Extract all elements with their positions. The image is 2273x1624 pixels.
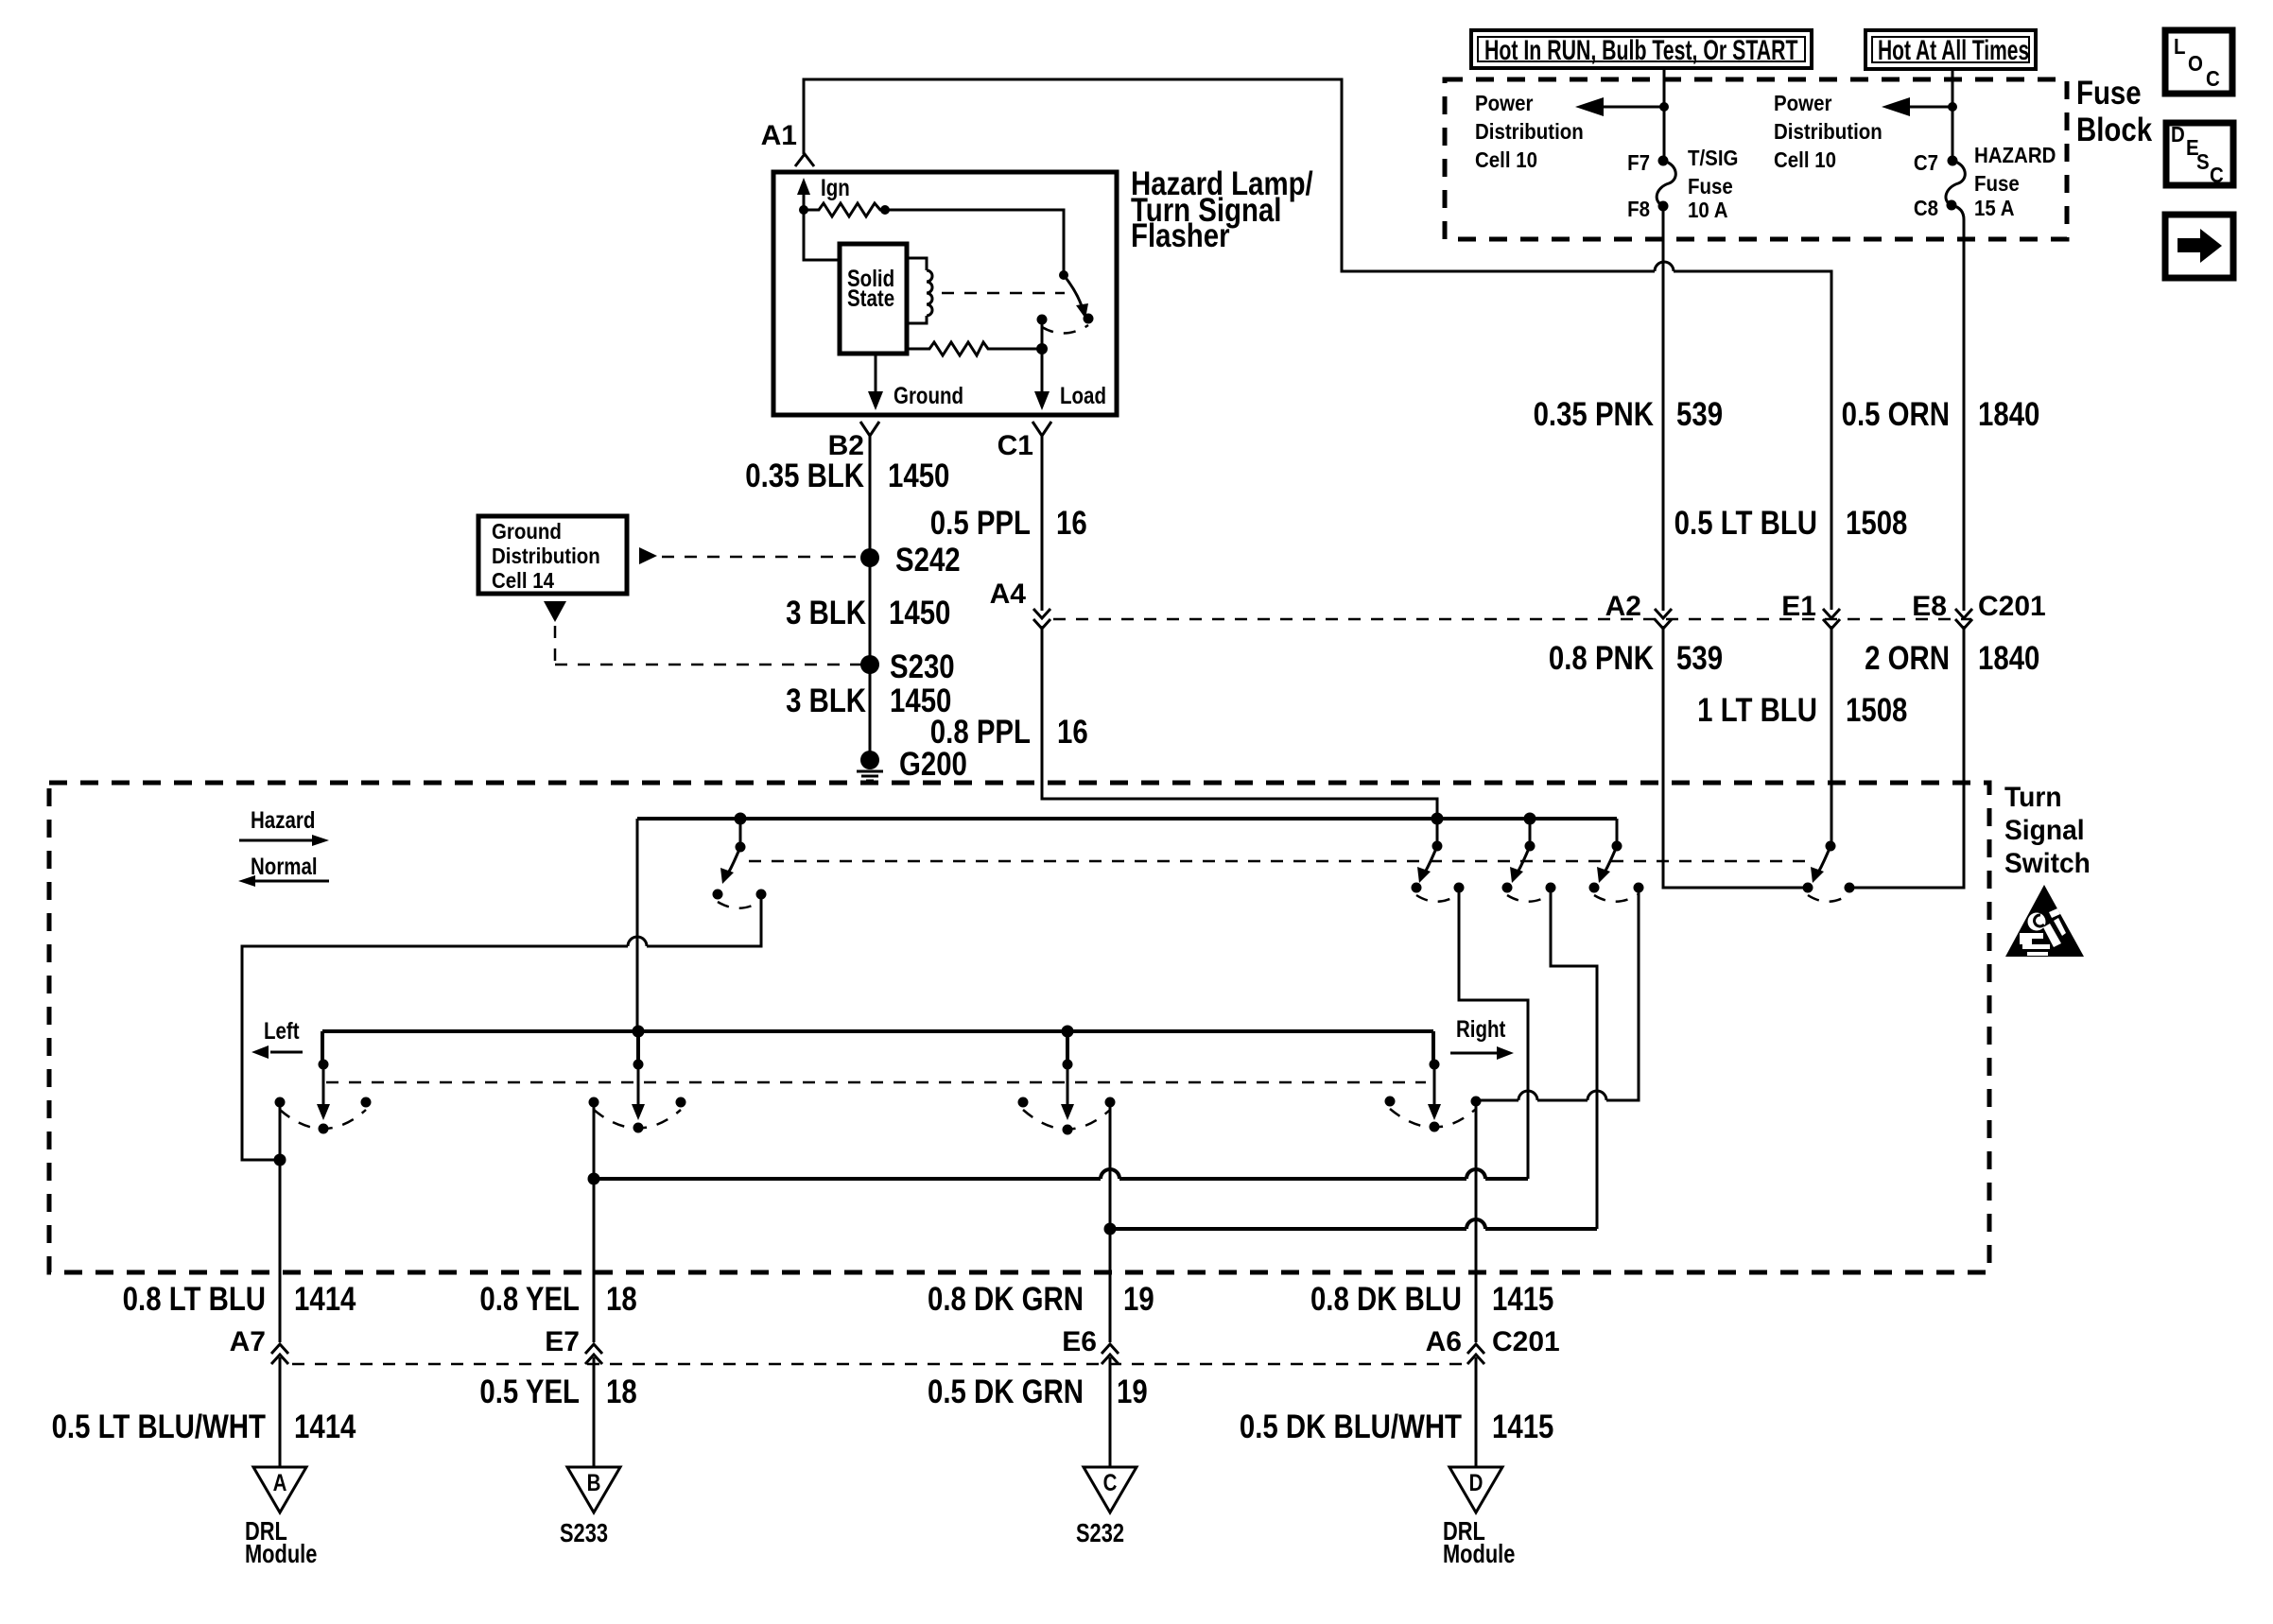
node load junction — [1036, 343, 1048, 354]
svg-text:3 BLK: 3 BLK — [786, 595, 867, 631]
SIR caution triangle — [2005, 885, 2084, 957]
svg-text:0.8 DK GRN: 0.8 DK GRN — [928, 1281, 1084, 1318]
wire continue to LT BLU drop — [1674, 271, 1831, 610]
flasher switch pivot — [1059, 270, 1068, 280]
resistor R-ign — [804, 203, 885, 216]
svg-text:0.5 YEL: 0.5 YEL — [479, 1373, 580, 1410]
Hot In RUN, Bulb Test, Or START box — [1471, 30, 1812, 68]
splice S242 — [860, 548, 879, 567]
svg-text:Cell 10: Cell 10 — [1774, 147, 1836, 172]
connector A1 chevron — [795, 154, 814, 166]
svg-text:E8: E8 — [1912, 591, 1947, 622]
DESC reference box — [2166, 123, 2233, 185]
dashed connector line C201 upper row — [1053, 618, 1971, 621]
right bank switch 3 feed — [1616, 819, 1619, 842]
destination triangle D — [1449, 1467, 1502, 1512]
svg-text:1 LT BLU: 1 LT BLU — [1697, 692, 1817, 729]
connector B2 fork — [860, 422, 879, 444]
svg-text:0.5 DK BLU/WHT: 0.5 DK BLU/WHT — [1240, 1408, 1462, 1445]
bus wire from flasher load across switch top — [637, 817, 1617, 821]
svg-text:0.5 ORN: 0.5 ORN — [1842, 396, 1950, 433]
wire D link continue — [1537, 1099, 1588, 1102]
svg-text:Distribution: Distribution — [492, 544, 600, 568]
svg-text:HAZARD: HAZARD — [1974, 143, 2056, 167]
svg-text:0.5 LT BLU: 0.5 LT BLU — [1674, 505, 1817, 542]
svg-text:10 A: 10 A — [1688, 198, 1728, 222]
svg-text:2 ORN: 2 ORN — [1865, 640, 1950, 677]
connector E6 chevrons — [1102, 1344, 1119, 1364]
svg-text:Distribution: Distribution — [1774, 119, 1883, 144]
fuse HAZARD element — [1946, 161, 1965, 205]
svg-text:S232: S232 — [1076, 1518, 1124, 1547]
wire switch3 right contact down to D link — [1606, 888, 1639, 1100]
wire LT BLU into switch box — [1831, 626, 1833, 841]
connector A2 — [1655, 609, 1672, 629]
Fuse Block dashed box — [1445, 79, 2067, 239]
W1 hop over C wire — [1101, 1169, 1119, 1179]
splice S230 — [860, 655, 879, 674]
svg-text:S230: S230 — [890, 648, 955, 685]
wire PPL into switch — [1042, 626, 1437, 814]
junction lower bus mid — [633, 1026, 645, 1038]
flasher switch contacts — [1037, 315, 1048, 325]
wire hop over F8 vertical — [1655, 262, 1674, 271]
connector A4 — [1033, 609, 1050, 629]
svg-text:C201: C201 — [1978, 591, 2046, 622]
wire ORN into switch box — [1854, 626, 1964, 888]
svg-text:S242: S242 — [895, 542, 961, 579]
bus drop to lower bank — [636, 819, 639, 1031]
junction A net — [274, 1154, 286, 1166]
Hot At All Times box — [1865, 30, 2036, 69]
lower bus wire — [322, 1029, 1433, 1033]
wire B to S233 — [593, 1357, 596, 1467]
wire switch1 right contact to B net — [1459, 888, 1528, 1179]
right bank switch 2 feed — [1529, 819, 1532, 842]
svg-text:Power: Power — [1475, 91, 1534, 115]
svg-text:C8: C8 — [1914, 196, 1938, 220]
svg-text:0.5 DK GRN: 0.5 DK GRN — [928, 1373, 1084, 1410]
svg-text:Module: Module — [245, 1539, 317, 1568]
connector E8 — [1955, 609, 1972, 629]
svg-text:S: S — [2196, 149, 2210, 174]
resistor R-load — [907, 342, 1042, 355]
connector A6 chevrons — [1467, 1344, 1484, 1364]
arrow from ground distribution box — [639, 547, 657, 564]
svg-text:Module: Module — [1443, 1539, 1515, 1568]
junction switch2 feed — [1524, 813, 1536, 825]
wire left contact to load node — [1041, 320, 1044, 349]
wire C net down and out — [1109, 1101, 1112, 1342]
dashed reference line to S230 — [555, 626, 864, 665]
right bank switch 3 — [1612, 841, 1622, 852]
bus W1 B-net crossover — [594, 1177, 1528, 1181]
lower switch 3 feed — [1066, 1031, 1069, 1061]
wire A to DRL module — [279, 1357, 282, 1467]
svg-text:1450: 1450 — [889, 595, 950, 631]
svg-text:F8: F8 — [1627, 197, 1650, 221]
right bank switch 2 — [1525, 841, 1536, 852]
svg-text:0.5 PPL: 0.5 PPL — [930, 505, 1031, 542]
svg-text:G200: G200 — [899, 746, 967, 783]
W2 hop over D wire — [1466, 1219, 1485, 1229]
svg-text:Fuse: Fuse — [1974, 171, 2020, 196]
wire hot-all feed — [1952, 70, 1954, 161]
svg-text:E6: E6 — [1062, 1326, 1097, 1357]
W1 hop over D wire — [1466, 1169, 1485, 1179]
power distribution arrow 2 — [1908, 106, 1952, 109]
fuse T/SIG terminals — [1658, 156, 1669, 166]
svg-text:Cell 10: Cell 10 — [1475, 147, 1537, 172]
svg-text:Right: Right — [1456, 1015, 1506, 1042]
svg-text:E1: E1 — [1781, 591, 1816, 622]
destination triangle A — [253, 1467, 306, 1512]
hazard switch — [1826, 841, 1836, 852]
svg-text:Fuse: Fuse — [1688, 174, 1733, 199]
svg-text:Switch: Switch — [2004, 848, 2091, 879]
svg-text:Hot At All Times: Hot At All Times — [1878, 36, 2029, 66]
svg-text:L: L — [2174, 34, 2186, 59]
wire D to DRL module — [1475, 1357, 1478, 1467]
Solid State box — [840, 244, 907, 354]
svg-text:15 A: 15 A — [1974, 196, 2015, 220]
svg-text:0.35 BLK: 0.35 BLK — [745, 458, 864, 494]
lower switch 1 (left front) — [319, 1060, 329, 1070]
svg-text:Ground: Ground — [492, 519, 562, 544]
wire PNK into switch box — [1663, 626, 1803, 888]
svg-text:Power: Power — [1774, 91, 1832, 115]
svg-text:1415: 1415 — [1492, 1281, 1553, 1318]
svg-text:18: 18 — [606, 1373, 637, 1410]
svg-text:1508: 1508 — [1846, 692, 1907, 729]
svg-text:F7: F7 — [1627, 150, 1650, 175]
right bank switch 1 feed — [1436, 819, 1439, 842]
svg-text:C7: C7 — [1914, 150, 1938, 175]
svg-text:Ground: Ground — [894, 382, 963, 408]
svg-text:3 BLK: 3 BLK — [786, 682, 867, 719]
mechanical dashed link lower bank — [326, 1081, 1426, 1084]
svg-text:C: C — [2210, 163, 2224, 187]
destination triangle C — [1084, 1467, 1136, 1512]
lower switch 2 feed — [636, 1031, 640, 1061]
svg-text:C: C — [2206, 66, 2220, 91]
down arrow below ground distribution box — [544, 601, 566, 622]
wire A net down and out — [279, 1102, 282, 1342]
svg-text:A2: A2 — [1605, 591, 1641, 622]
svg-text:E7: E7 — [545, 1326, 580, 1357]
wire hot-run feed — [1663, 68, 1666, 161]
svg-text:1450: 1450 — [888, 458, 949, 494]
wire to switch feed — [885, 210, 1064, 271]
wire A1 to solid state — [804, 210, 840, 260]
svg-text:T/SIG: T/SIG — [1688, 146, 1738, 170]
svg-text:C201: C201 — [1492, 1326, 1560, 1357]
wire load down-arrow — [1041, 349, 1044, 394]
svg-text:Distribution: Distribution — [1475, 119, 1584, 144]
svg-text:Flasher: Flasher — [1131, 217, 1230, 254]
svg-text:1840: 1840 — [1978, 396, 2039, 433]
lower switch 2 (left rear) — [633, 1060, 644, 1070]
relay coil of flasher — [907, 258, 927, 323]
wire hop over bus drop — [628, 937, 647, 946]
wire ground down-arrow — [875, 354, 877, 394]
lower switch 3 (right rear) — [1063, 1060, 1073, 1070]
forward arrow reference box — [2165, 215, 2233, 278]
wire D link hop over x1689 — [1588, 1091, 1606, 1100]
dashed mechanical link in flasher — [942, 292, 1065, 295]
wire ORN from fuse C8 down — [1952, 205, 1964, 611]
svg-text:A6: A6 — [1426, 1326, 1462, 1357]
svg-text:Signal: Signal — [2004, 815, 2085, 846]
wire PNK from fuse F8 down — [1662, 206, 1665, 611]
svg-text:Normal: Normal — [251, 853, 318, 879]
svg-text:16: 16 — [1056, 505, 1087, 542]
fuse HAZARD terminals — [1948, 156, 1958, 166]
dashed connector line C201 bottom row — [292, 1363, 1467, 1366]
connector A7 chevrons — [271, 1344, 288, 1364]
destination triangle B — [567, 1467, 620, 1512]
power distribution arrow 1 — [1602, 106, 1664, 109]
svg-text:16: 16 — [1057, 714, 1088, 751]
svg-text:0.8 YEL: 0.8 YEL — [479, 1281, 580, 1318]
svg-text:0.8 PNK: 0.8 PNK — [1549, 640, 1655, 677]
wire D link to bottom switch right contact — [1476, 1099, 1518, 1102]
svg-text:1840: 1840 — [1978, 640, 2039, 677]
svg-text:0.35 PNK: 0.35 PNK — [1534, 396, 1655, 433]
svg-text:1414: 1414 — [294, 1408, 356, 1445]
wire C to S232 — [1109, 1357, 1112, 1467]
top-left hazard-interlock switch — [736, 842, 746, 853]
node resistor left — [799, 205, 808, 215]
Hazard Lamp / Turn Signal Flasher box — [773, 172, 1117, 415]
right bank switch 1 — [1432, 841, 1443, 852]
top-left switch feed — [739, 819, 742, 842]
connector C1 fork — [1032, 422, 1051, 444]
svg-text:539: 539 — [1676, 640, 1723, 677]
svg-text:A1: A1 — [761, 120, 797, 151]
svg-text:Block: Block — [2076, 112, 2152, 148]
svg-text:1414: 1414 — [294, 1281, 356, 1318]
lower switch 1 feed — [321, 1031, 324, 1061]
svg-text:A7: A7 — [230, 1326, 266, 1357]
junction B net — [588, 1173, 600, 1185]
connector E7 chevrons — [585, 1344, 602, 1364]
svg-text:C1: C1 — [998, 430, 1033, 461]
ground G200 — [860, 751, 879, 769]
wire switch2 right contact to C net — [1551, 888, 1597, 1229]
mechanical dashed link top bank — [749, 860, 1806, 863]
svg-text:State: State — [847, 285, 894, 311]
svg-text:D: D — [1469, 1469, 1484, 1495]
Ign up-arrow inside flasher — [803, 189, 806, 210]
svg-text:O: O — [2188, 51, 2203, 76]
wire B2 ground lead — [869, 436, 872, 760]
Ground Distribution Cell 14 box — [478, 516, 627, 594]
svg-text:Left: Left — [264, 1017, 300, 1044]
lower switch 4 (right front) — [1430, 1060, 1440, 1070]
junction top-left switch feed — [735, 813, 747, 825]
flasher switch arm — [1064, 275, 1083, 309]
wire A1 feed: up from flasher pin A1, across top, down, right to E1 drop — [804, 79, 1655, 271]
node resistor right — [880, 205, 890, 215]
fuse T/SIG element — [1657, 161, 1675, 206]
Turn Signal Switch dashed box — [49, 783, 1989, 1272]
svg-text:1415: 1415 — [1492, 1408, 1553, 1445]
svg-text:Turn: Turn — [2004, 782, 2062, 813]
wire D net down and out — [1475, 1100, 1478, 1342]
svg-text:1508: 1508 — [1846, 505, 1907, 542]
svg-text:Hazard: Hazard — [251, 806, 315, 833]
svg-text:18: 18 — [606, 1281, 637, 1318]
junction C net — [1104, 1223, 1117, 1235]
junction lower bus right — [1062, 1026, 1074, 1038]
svg-text:Cell 14: Cell 14 — [492, 568, 554, 593]
wire D link hop over x1616 — [1518, 1091, 1537, 1100]
connector E1 — [1823, 609, 1840, 629]
svg-text:D: D — [2171, 122, 2185, 147]
junction PPL join — [1431, 813, 1444, 825]
svg-text:S233: S233 — [560, 1518, 608, 1547]
lower switch 4 feed — [1431, 1031, 1435, 1061]
dashed throw arc — [1042, 325, 1088, 334]
wire C1 load lead — [1041, 436, 1044, 611]
svg-text:19: 19 — [1117, 1373, 1148, 1410]
svg-text:Ign: Ign — [821, 174, 850, 200]
wire B net down and out — [593, 1103, 596, 1342]
svg-text:19: 19 — [1123, 1281, 1154, 1318]
svg-text:Fuse: Fuse — [2076, 75, 2142, 112]
wire top-left right contact to left-turn net — [242, 894, 761, 1160]
svg-text:A: A — [273, 1469, 287, 1495]
svg-text:B: B — [587, 1469, 601, 1495]
svg-text:539: 539 — [1676, 396, 1723, 433]
svg-text:C: C — [1103, 1469, 1118, 1495]
svg-text:Load: Load — [1060, 382, 1106, 408]
svg-text:0.8 DK BLU: 0.8 DK BLU — [1310, 1281, 1462, 1318]
dashed reference line to S242 — [662, 556, 865, 559]
svg-text:Hot In RUN, Bulb Test, Or STAR: Hot In RUN, Bulb Test, Or START — [1484, 33, 1798, 66]
bus W2 C-net crossover — [1110, 1227, 1597, 1231]
svg-text:A4: A4 — [990, 579, 1027, 610]
svg-text:0.8 LT BLU: 0.8 LT BLU — [123, 1281, 266, 1318]
svg-text:0.5 LT BLU/WHT: 0.5 LT BLU/WHT — [52, 1408, 267, 1445]
LOC reference box — [2165, 30, 2232, 94]
